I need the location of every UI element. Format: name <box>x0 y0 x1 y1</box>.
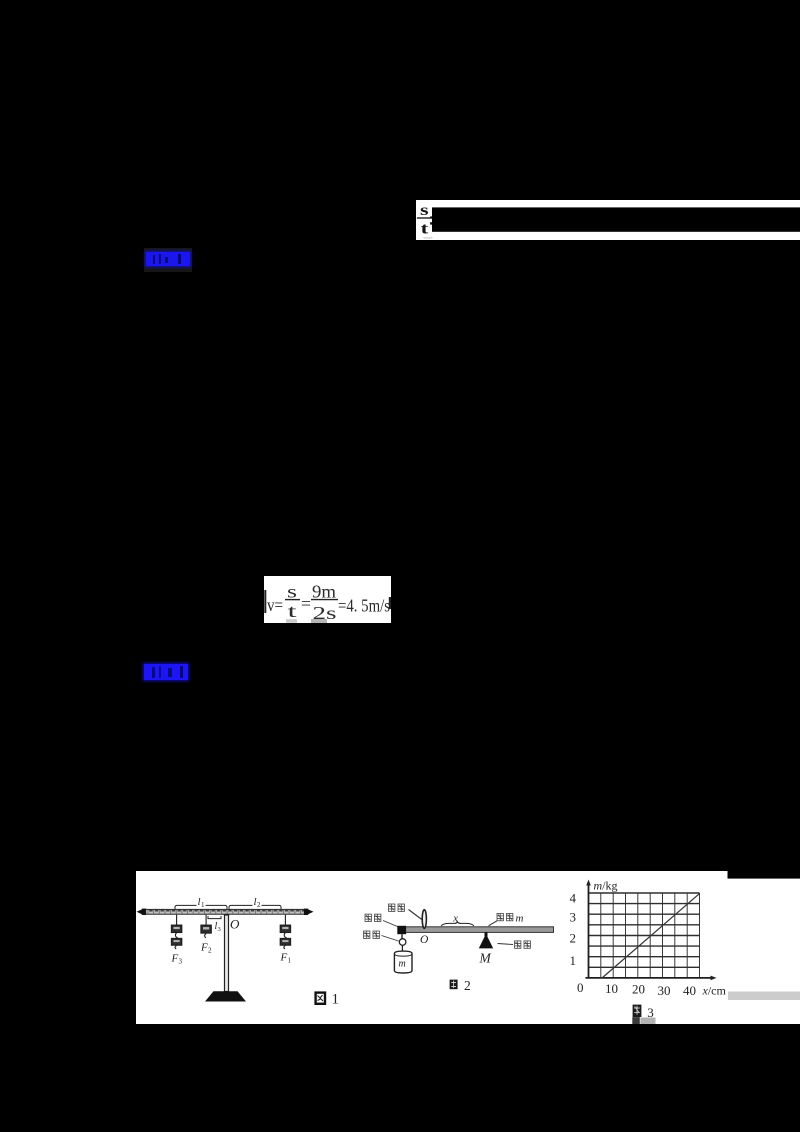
base <box>205 991 246 1001</box>
svg-text:9m: 9m <box>312 582 336 602</box>
white strip background <box>416 200 800 240</box>
svg-text:s: s <box>420 202 429 219</box>
svg-text:t: t <box>288 601 297 621</box>
right weights F1 <box>280 915 290 949</box>
brace left l1 <box>175 905 227 909</box>
svg-text:20: 20 <box>632 982 645 997</box>
svg-text:O: O <box>420 934 429 946</box>
svg-text:M: M <box>479 951 492 966</box>
svg-text:2: 2 <box>208 947 212 955</box>
label chengtuo (sliding weight) <box>498 941 531 948</box>
top formula strip (s/t fraction on white, black inner band) <box>416 200 800 240</box>
svg-text:1: 1 <box>332 992 340 1008</box>
brace right l2 <box>229 905 281 909</box>
svg-text:2: 2 <box>257 901 261 909</box>
label peizhong (counterweight) <box>365 914 399 927</box>
cylinder weight m <box>394 951 412 973</box>
pivot O <box>224 915 230 919</box>
figures panel <box>136 871 800 1024</box>
svg-text:x/cm: x/cm <box>702 984 727 998</box>
svg-text:40: 40 <box>683 983 696 998</box>
svg-text:1: 1 <box>288 957 292 965</box>
svg-text:F: F <box>200 942 208 954</box>
gray artifacts under caption <box>632 1017 640 1024</box>
svg-text:O: O <box>230 917 240 932</box>
svg-text:=: = <box>301 594 311 614</box>
partial glyph right edge <box>389 597 391 609</box>
fig3 caption <box>633 1005 654 1020</box>
svg-text:F: F <box>280 952 288 964</box>
small bracket l3 under bar <box>208 916 221 919</box>
formula box v=s/t=9m/2s=4.5m/s <box>264 576 391 623</box>
label tiniu (lifting cord) <box>389 904 422 920</box>
black inner band <box>432 207 800 231</box>
svg-text:s: s <box>287 582 297 602</box>
fig2 caption <box>450 978 471 993</box>
svg-text:2: 2 <box>464 978 471 993</box>
gray smudges <box>286 619 297 623</box>
hook circle <box>399 939 406 946</box>
svg-text:1: 1 <box>570 953 577 968</box>
axes <box>586 883 714 978</box>
equals remnants at band edge <box>430 216 432 218</box>
svg-text:F: F <box>171 953 179 965</box>
svg-text:m: m <box>399 959 406 970</box>
analysis tag box 【解析】 blue <box>144 663 189 681</box>
left weights F3 <box>171 915 181 949</box>
svg-text:10: 10 <box>605 981 618 996</box>
svg-text:m/kg: m/kg <box>594 879 618 893</box>
svg-text:t: t <box>421 220 430 237</box>
fraction bar <box>417 217 432 219</box>
counterweight square <box>397 926 406 934</box>
svg-text:3: 3 <box>179 958 183 966</box>
label shishu m (reading) <box>489 913 513 925</box>
svg-text:m: m <box>516 913 524 925</box>
stand rod <box>225 915 229 992</box>
lifting loop <box>422 910 426 929</box>
svg-text:v=: v= <box>267 595 283 615</box>
svg-text:0: 0 <box>577 980 584 995</box>
label l1 <box>197 897 206 907</box>
svg-text:4: 4 <box>570 891 577 906</box>
svg-text:3: 3 <box>218 926 221 933</box>
grid <box>589 893 700 978</box>
svg-text:1: 1 <box>201 901 205 909</box>
string to cylinder <box>401 945 403 951</box>
gray smudge <box>424 237 433 239</box>
plotted line <box>602 894 700 978</box>
gray band bottom-right <box>728 992 800 1001</box>
partial glyph at left edge <box>264 590 266 613</box>
lever ruler <box>143 909 308 914</box>
middle weight F2 <box>201 915 211 938</box>
sliding weight (cone) M <box>485 932 488 936</box>
label guagou (hook) <box>364 931 399 941</box>
svg-text:3: 3 <box>570 910 577 925</box>
label l2 <box>253 897 262 907</box>
fig1 caption <box>316 992 339 1008</box>
svg-text:30: 30 <box>658 983 671 998</box>
end caps and arrows <box>142 909 146 915</box>
svg-text:2: 2 <box>570 931 577 946</box>
answer tag box 【答案】 blue on dark <box>144 248 192 272</box>
black notch top-right <box>728 871 800 879</box>
beam <box>405 927 554 933</box>
svg-text:=4. 5m/s: =4. 5m/s <box>338 596 390 616</box>
